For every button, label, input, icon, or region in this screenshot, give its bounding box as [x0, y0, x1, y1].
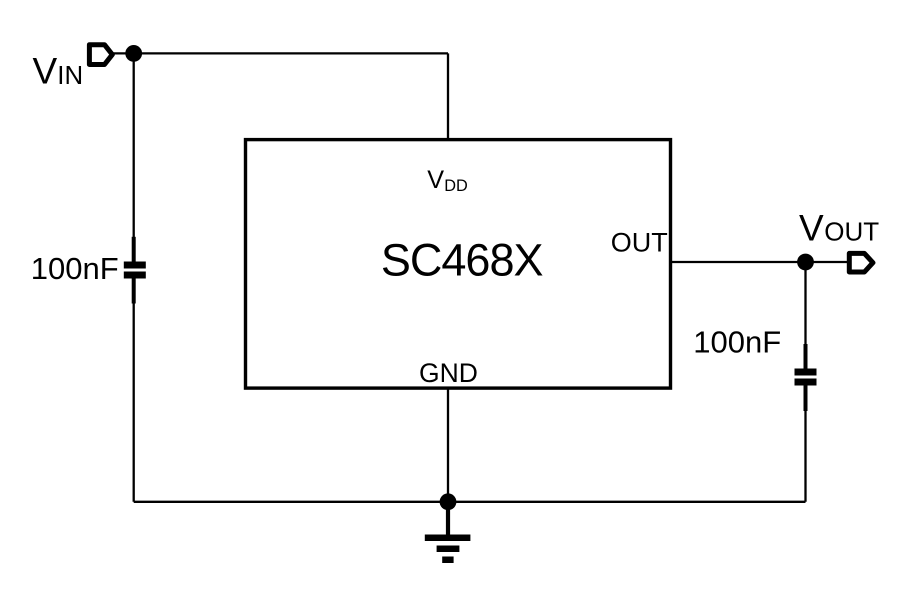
svg-text:OUT: OUT [824, 216, 879, 246]
svg-text:V: V [799, 207, 824, 248]
ground symbol [425, 502, 471, 563]
port VIN (input flag symbol) [89, 45, 112, 65]
svg-text:100nF: 100nF [31, 251, 119, 286]
capacitor C2 100nF (output bypass) [795, 344, 817, 411]
svg-text:OUT: OUT [611, 227, 668, 257]
wire VOUT node down to C2 top [804, 262, 806, 369]
svg-text:IN: IN [57, 62, 83, 90]
pin label VDD [427, 166, 468, 195]
wire VIN node to VDD (top horizontal) [134, 52, 448, 54]
wire VIN node down to C1 top [133, 53, 135, 261]
svg-text:100nF: 100nF [693, 325, 781, 360]
wire C2 bottom down to ground bus [804, 386, 806, 502]
wire OUT pin to VOUT node [671, 261, 806, 263]
wire C1 bottom down to ground bus [133, 279, 135, 502]
svg-text:DD: DD [444, 177, 468, 195]
wire top corner down to IC VDD pin [447, 53, 449, 139]
IC U1 SC468X body [246, 140, 671, 389]
node VOUT (junction dot) [797, 254, 814, 271]
wire IC GND pin down to ground bus [447, 388, 449, 502]
node VIN (junction dot) [125, 45, 142, 62]
node GND junction dot [440, 493, 457, 510]
capacitor C1 100nF (input bypass) [124, 237, 146, 304]
wire ground bus (bottom horizontal) [134, 501, 806, 503]
net label VOUT [799, 207, 879, 248]
svg-text:V: V [33, 51, 58, 92]
wire VIN port to VIN node [112, 52, 134, 54]
net label VIN [33, 51, 84, 92]
svg-text:V: V [427, 166, 444, 194]
svg-text:SC468X: SC468X [381, 234, 544, 285]
wire VOUT node to output port [806, 261, 850, 263]
svg-text:GND: GND [419, 358, 478, 388]
port VOUT (output flag symbol) [849, 253, 873, 272]
